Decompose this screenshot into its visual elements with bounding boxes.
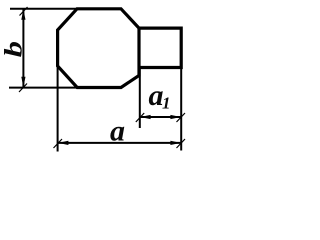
dimension line a <box>58 142 182 144</box>
top extension line <box>10 8 78 10</box>
arrow a1 left <box>140 115 151 119</box>
svg-text:a: a <box>110 114 125 147</box>
arrow a right <box>170 141 181 145</box>
arrow b bottom <box>21 77 25 88</box>
arrow a left <box>58 141 69 145</box>
arrow a1 right <box>170 115 181 119</box>
bottom extension line <box>9 87 78 89</box>
dimension line b <box>22 9 24 88</box>
svg-text:b: b <box>0 41 27 57</box>
arrow b top <box>21 9 25 20</box>
svg-text:1: 1 <box>162 94 171 113</box>
extension line left for a <box>57 66 59 152</box>
extension line left for a1 <box>139 68 141 129</box>
octagon body outline <box>58 9 139 88</box>
square boss outline <box>139 28 181 67</box>
extension line right for a <box>180 68 182 151</box>
dimension line a1 <box>140 116 181 118</box>
